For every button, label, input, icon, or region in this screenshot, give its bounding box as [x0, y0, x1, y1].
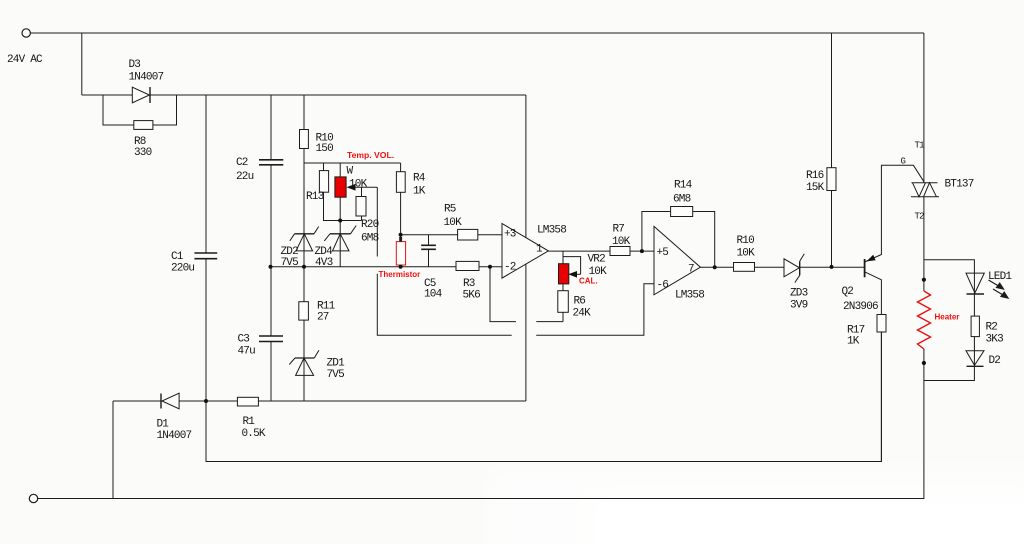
svg-text:10K: 10K: [612, 236, 631, 248]
svg-text:VR2: VR2: [588, 254, 606, 266]
svg-text:R6: R6: [574, 296, 586, 308]
svg-text:6M8: 6M8: [361, 233, 379, 245]
svg-text:R3: R3: [463, 278, 475, 290]
svg-text:LM358: LM358: [675, 290, 704, 302]
svg-text:27: 27: [317, 312, 329, 324]
svg-text:C3: C3: [238, 334, 250, 346]
svg-text:104: 104: [424, 289, 443, 301]
svg-text:-6: -6: [657, 280, 669, 292]
svg-text:C1: C1: [171, 251, 184, 263]
svg-text:R1: R1: [243, 416, 256, 428]
svg-text:10K: 10K: [349, 179, 368, 191]
svg-text:7V5: 7V5: [281, 257, 299, 269]
svg-text:LM358: LM358: [537, 225, 566, 237]
svg-text:7V5: 7V5: [327, 369, 345, 381]
svg-text:T2: T2: [915, 212, 925, 222]
svg-text:R16: R16: [806, 170, 824, 182]
svg-text:D1: D1: [157, 419, 170, 431]
svg-text:150: 150: [316, 143, 334, 155]
svg-text:47u: 47u: [238, 346, 256, 358]
svg-text:R2: R2: [986, 322, 998, 334]
svg-text:D2: D2: [989, 355, 1001, 367]
svg-text:Q2: Q2: [842, 286, 854, 298]
svg-text:24V AC: 24V AC: [7, 54, 43, 66]
svg-text:5K6: 5K6: [463, 290, 481, 302]
svg-text:BT137: BT137: [945, 179, 974, 191]
svg-text:R5: R5: [444, 204, 456, 216]
svg-text:R20: R20: [361, 219, 379, 231]
svg-text:220u: 220u: [171, 263, 194, 275]
svg-text:+3: +3: [504, 229, 516, 241]
svg-text:1N4007: 1N4007: [157, 430, 192, 442]
svg-text:ZD3: ZD3: [790, 288, 808, 300]
svg-text:R7: R7: [613, 224, 625, 236]
svg-text:1K: 1K: [413, 186, 426, 198]
svg-text:7: 7: [688, 264, 694, 276]
svg-text:Heater: Heater: [935, 313, 960, 322]
svg-text:3K3: 3K3: [986, 334, 1004, 346]
svg-text:Thermistor: Thermistor: [379, 270, 421, 279]
svg-text:2N3906: 2N3906: [843, 301, 878, 313]
svg-text:D3: D3: [129, 59, 141, 71]
svg-text:0.5K: 0.5K: [242, 428, 266, 440]
svg-text:24K: 24K: [573, 308, 592, 320]
svg-text:R14: R14: [674, 180, 693, 192]
svg-text:1K: 1K: [847, 336, 860, 348]
svg-text:4V3: 4V3: [315, 257, 333, 269]
svg-text:15K: 15K: [806, 182, 825, 194]
svg-text:T1: T1: [915, 141, 925, 151]
svg-text:G: G: [901, 157, 906, 167]
svg-text:3V9: 3V9: [790, 300, 808, 312]
svg-text:LED1: LED1: [988, 271, 1012, 283]
svg-text:Temp. VOL.: Temp. VOL.: [347, 150, 394, 160]
svg-text:6M8: 6M8: [673, 194, 691, 206]
svg-text:R10: R10: [737, 235, 755, 247]
svg-text:10K: 10K: [737, 248, 756, 260]
svg-text:C2: C2: [236, 157, 248, 169]
svg-text:22u: 22u: [236, 171, 254, 183]
svg-text:R4: R4: [413, 173, 426, 185]
svg-text:1N4007: 1N4007: [129, 72, 164, 84]
svg-text:10K: 10K: [444, 217, 463, 229]
svg-text:R13: R13: [306, 191, 324, 203]
svg-text:CAL.: CAL.: [579, 277, 598, 286]
svg-text:ZD1: ZD1: [327, 358, 346, 370]
svg-text:-2: -2: [504, 262, 516, 274]
svg-text:+5: +5: [657, 247, 669, 259]
svg-text:330: 330: [134, 147, 152, 159]
